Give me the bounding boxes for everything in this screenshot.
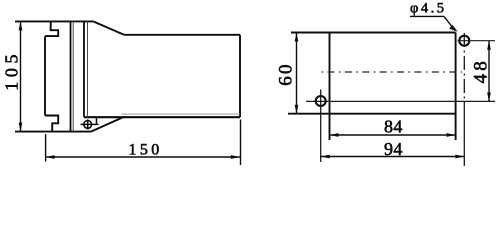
dimension 150: line	[46, 156, 240, 158]
svg-text:60: 60	[275, 62, 296, 85]
svg-text:84: 84	[384, 117, 403, 137]
left view: short vertical under body at x=96.5	[96, 117, 98, 124]
dimension 84: left arrow	[330, 133, 339, 137]
dimension 105: top arrow	[19, 21, 23, 30]
left view: flange bottom edge with 105 extension	[15, 131, 91, 133]
dimension 60: line	[296, 33, 298, 114]
right view: top-right hole circle	[459, 36, 469, 46]
dimension 150: right extension line	[240, 120, 242, 166]
right view: case right edge extended down to 84 dim	[455, 33, 457, 141]
left view: captive screw circle	[84, 121, 92, 129]
right view: case bottom edge with 60 extension	[288, 113, 456, 115]
left view: body top edge	[124, 34, 240, 36]
label phi 4.5: leader diagonal	[444, 16, 455, 30]
dimension 150: left extension line	[45, 134, 47, 162]
dimension 150: right arrow	[231, 155, 240, 159]
dimension 60: bottom arrow	[295, 105, 299, 114]
left view: body bottom edge dark	[84, 116, 240, 118]
left view: body front vertical light	[87, 21, 89, 117]
right view: case left edge extended down to 84 dim	[329, 33, 331, 141]
left view: body bottom inner light line	[122, 113, 241, 115]
label phi 4.5: leader underline	[410, 15, 444, 17]
left view: flange rear vertical dark	[70, 21, 72, 131]
dimension 84: right arrow	[447, 133, 456, 137]
right view: case top edge with 60 extension	[291, 32, 456, 34]
dimension 48: top arrow	[487, 41, 491, 50]
left view: flange top edge with 105 extension	[15, 20, 93, 22]
svg-text:48: 48	[470, 58, 491, 83]
left view: body front vertical dark	[83, 21, 85, 117]
dimension 84: line	[330, 134, 456, 136]
left view: body right edge	[239, 35, 241, 117]
right view: top-right hole horizontal centerline to 48 dim	[458, 40, 496, 42]
left view: flange rear vertical light	[72, 21, 74, 131]
dimension 48: line	[488, 41, 490, 102]
dimension 105: bottom arrow	[19, 123, 23, 132]
label phi 4.5: leader arrowhead	[449, 25, 458, 32]
right view: top-right hole vertical centerline extended down to 94 dim	[463, 33, 465, 110]
svg-text:150: 150	[128, 141, 162, 158]
right view: bottom-left hole circle	[316, 96, 326, 106]
svg-text:φ4.5: φ4.5	[410, 0, 447, 16]
left view: top chamfer diagonal	[93, 21, 124, 34]
right view: bottom-left hole vertical centerline	[320, 90, 322, 163]
dimension 94: left arrow	[321, 155, 330, 159]
svg-text:94: 94	[384, 139, 403, 159]
left view: bottom step notch	[45, 116, 58, 132]
dimension 94: line	[321, 156, 465, 158]
left view: flange left face	[44, 36, 46, 115]
left view: screw cross horizontal	[81, 123, 99, 125]
dimension 105: line	[20, 21, 22, 131]
right view: hole extension horizontal through case at y=101.4	[306, 100, 495, 102]
dimension 48: bottom arrow	[487, 92, 491, 101]
left view: screw cross vertical	[87, 119, 89, 129]
dimension 150: left arrow	[46, 155, 55, 159]
right view: horizontal centerline dash-dot	[322, 71, 463, 73]
svg-text:105: 105	[2, 50, 22, 91]
left view: bottom chamfer diagonal	[91, 117, 123, 131]
dimension 94: right arrow	[455, 155, 464, 159]
dimension 60: top arrow	[295, 33, 299, 42]
left view: top step notch	[45, 21, 58, 36]
